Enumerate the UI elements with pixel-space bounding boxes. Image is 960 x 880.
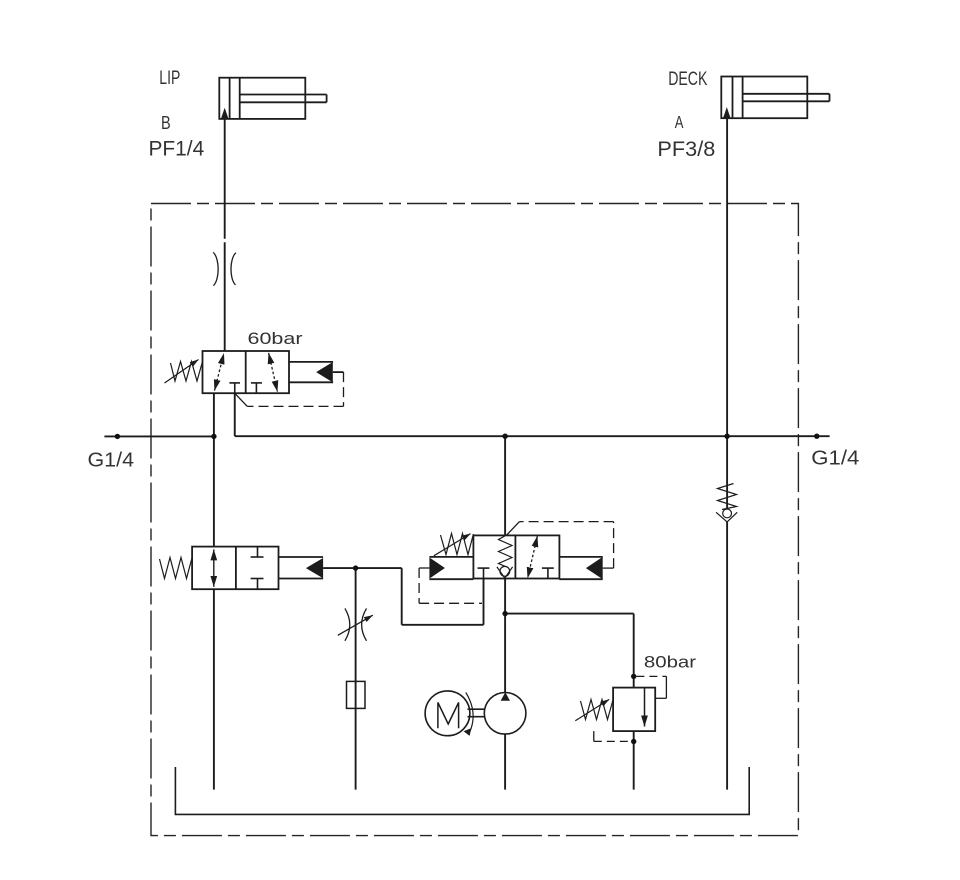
svg-text:B: B xyxy=(161,113,171,133)
svg-text:A: A xyxy=(675,112,684,132)
svg-text:LIP: LIP xyxy=(159,68,180,89)
svg-text:PF1/4: PF1/4 xyxy=(149,138,205,161)
svg-text:G1/4: G1/4 xyxy=(811,448,859,470)
svg-text:DECK: DECK xyxy=(668,69,707,90)
svg-text:PF3/8: PF3/8 xyxy=(657,138,715,161)
svg-text:60bar: 60bar xyxy=(248,329,303,348)
svg-text:G1/4: G1/4 xyxy=(88,450,135,472)
svg-text:80bar: 80bar xyxy=(644,653,697,672)
